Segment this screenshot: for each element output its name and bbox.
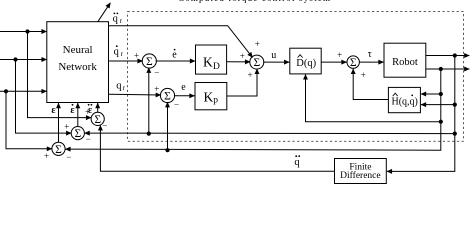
svg-text:−: − xyxy=(154,68,159,78)
wire: FD output qddot feedback to S5 xyxy=(100,125,334,171)
NN training arrow xyxy=(98,3,111,22)
svg-text:e: e xyxy=(181,82,186,93)
wire: epsilon up to NN xyxy=(58,103,60,142)
svg-text:D: D xyxy=(213,62,220,72)
svg-text:q: q xyxy=(113,14,119,25)
svg-text:q: q xyxy=(116,81,122,92)
svg-text:+: + xyxy=(154,84,159,94)
label epsilon-dot xyxy=(70,104,75,116)
wire: epsilon-ddot up to NN xyxy=(97,103,99,112)
svg-text:D(q): D(q) xyxy=(296,58,316,69)
node: junction on q vertical for Dhat xyxy=(439,120,443,124)
node: qdot rail to Hhat xyxy=(453,103,457,107)
wire: q into Hhat xyxy=(421,93,441,95)
wire: Hhat output to S4 bottom xyxy=(353,69,388,100)
summer S6 (epsilon-dot) xyxy=(71,127,84,141)
gain block Kp xyxy=(195,83,227,110)
svg-text:+: + xyxy=(44,151,49,161)
svg-text:−: − xyxy=(102,121,107,131)
svg-text:p: p xyxy=(213,95,218,105)
svg-text:+: + xyxy=(64,121,69,131)
summer S3 (control u) xyxy=(250,55,264,69)
wire: q vertical feedback rail xyxy=(65,69,440,150)
wire: Robot output q (lower) xyxy=(426,68,470,70)
wire: qdot feedback to S6 xyxy=(85,132,455,135)
svg-text:Computed torque control system: Computed torque control system xyxy=(178,0,330,3)
svg-text:+: + xyxy=(337,50,342,60)
svg-text:Neural: Neural xyxy=(63,44,93,56)
wire: NN output q-r to summer S2 xyxy=(109,93,161,96)
label qddot feedback xyxy=(294,155,300,168)
svg-text:+: + xyxy=(255,39,260,49)
wire: epsilon-dot up to NN xyxy=(77,103,79,127)
wire: S2 to Kp xyxy=(174,95,195,97)
wire: Dhat to S4 xyxy=(321,61,346,63)
wire: S3 to Dhat xyxy=(263,61,289,63)
svg-text:+: + xyxy=(247,70,252,80)
svg-text:−: − xyxy=(66,152,71,162)
block Robot xyxy=(384,43,426,77)
svg-text:τ: τ xyxy=(368,49,372,60)
svg-text:Robot: Robot xyxy=(392,57,418,68)
dashed controller boundary xyxy=(128,12,464,142)
wire: qdot drop to summer xyxy=(16,60,72,134)
node: tap on qdot input xyxy=(13,57,17,61)
svg-text:Σ: Σ xyxy=(253,57,260,69)
svg-text:+: + xyxy=(134,51,139,61)
svg-text:+: + xyxy=(361,70,366,80)
svg-text:Σ: Σ xyxy=(350,57,357,69)
label edot xyxy=(172,49,177,61)
node: qdot rail to Sb feedback xyxy=(453,132,457,136)
block Dhat(q) xyxy=(290,48,321,74)
node: q rail to Hhat xyxy=(439,92,443,96)
wire: S1 minus feedback from qdot line xyxy=(148,68,150,134)
wire: S2 minus feedback from q line xyxy=(167,102,169,150)
wire: Dhat bottom feedback xyxy=(306,74,441,121)
svg-text:H(q,q): H(q,q) xyxy=(392,97,418,108)
label qdot-r xyxy=(114,45,124,58)
wire: reference q input xyxy=(0,90,47,92)
svg-text:−: − xyxy=(174,100,179,110)
node: tap q output xyxy=(439,67,443,71)
svg-text:ε: ε xyxy=(88,105,93,116)
node: tap on q input xyxy=(4,89,8,93)
summer S1 (edot) xyxy=(142,54,156,68)
svg-text:K: K xyxy=(204,90,214,105)
summer S2 (e) xyxy=(160,88,174,102)
summer S7 (epsilon) xyxy=(52,142,65,156)
wire: Kp to torque summer bottom xyxy=(227,69,257,96)
block Hhat(q,qdot) xyxy=(388,87,420,112)
svg-text:r: r xyxy=(123,84,126,92)
wire: KD to torque summer xyxy=(227,61,251,63)
gain block KD xyxy=(196,45,227,74)
summer S5 (epsilon-ddot) xyxy=(91,112,104,126)
svg-text:u: u xyxy=(271,50,276,61)
svg-text:ε: ε xyxy=(51,105,56,116)
wire: qdot vertical feedback rail xyxy=(387,56,455,172)
label qddot-r xyxy=(113,13,123,26)
svg-text:Σ: Σ xyxy=(146,56,153,68)
wire: qdot into Hhat xyxy=(421,104,455,106)
svg-text:Difference: Difference xyxy=(340,170,380,181)
summer S4 (torque) xyxy=(347,56,359,69)
svg-text:q: q xyxy=(294,157,300,168)
svg-text:K: K xyxy=(203,55,213,70)
wire: NN output qddot-r then slant to torque summer xyxy=(109,26,253,58)
wire: qddot drop to summer xyxy=(28,32,92,118)
svg-text:q: q xyxy=(114,47,120,58)
svg-text:r: r xyxy=(121,50,124,58)
svg-text:−: − xyxy=(86,134,91,144)
wire: reference qdot input xyxy=(0,59,47,61)
svg-text:+: + xyxy=(240,51,245,61)
svg-text:r: r xyxy=(120,17,123,25)
wire: S1 to KD xyxy=(156,60,195,62)
wire: reference qddot input xyxy=(0,31,47,33)
node: junction on qdot feedback xyxy=(147,132,151,136)
block Finite Difference xyxy=(335,159,387,184)
node: tap on qddot input xyxy=(25,29,29,33)
wire: NN output qdot-r to summer S1 xyxy=(109,60,143,62)
node: junction on q feedback xyxy=(165,148,169,152)
label q-r xyxy=(116,81,125,93)
label epsilon-ddot xyxy=(88,104,93,116)
wire: Robot output qdot (upper) xyxy=(426,55,470,57)
svg-text:Σ: Σ xyxy=(74,128,81,140)
svg-text:Σ: Σ xyxy=(94,114,101,126)
svg-text:e: e xyxy=(172,50,177,61)
node: tap qdot output xyxy=(453,53,457,57)
svg-text:Σ: Σ xyxy=(55,144,62,156)
wire: q drop to summer xyxy=(6,91,52,149)
svg-text:Σ: Σ xyxy=(164,91,171,103)
svg-text:ε: ε xyxy=(70,105,75,116)
neural network box xyxy=(47,22,109,103)
wire: S4 to Robot xyxy=(360,61,384,63)
svg-text:Network: Network xyxy=(58,61,97,73)
